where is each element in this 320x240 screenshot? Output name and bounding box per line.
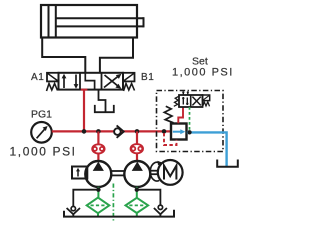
wire red pilot dashed (164, 133, 177, 145)
wire green left pump outlet (97, 187, 99, 198)
solenoid vent valve spring left (174, 96, 179, 106)
shaft pump to motor (150, 171, 158, 175)
node right pump junction (135, 129, 140, 134)
wire cylinder rod port to valve B port (100, 38, 133, 73)
pump P1 (85, 161, 111, 187)
solenoid vent valve ports (182, 91, 189, 95)
wire green left filter to tank (97, 213, 99, 216)
wire red right pump riser upper (136, 131, 138, 144)
solenoid vent valve right position crossed (192, 97, 200, 106)
spring left (47, 84, 58, 92)
node relief inlet junction (162, 129, 167, 134)
wire valve T port drain (99, 90, 106, 112)
directional valve V1 body (59, 73, 124, 90)
svg-text:1,000 PSI: 1,000 PSI (172, 67, 234, 79)
wire green right filter to tank (136, 213, 138, 217)
label B1 (141, 72, 154, 83)
filter F2 (126, 198, 149, 213)
solenoid A1 (47, 73, 59, 82)
node P junction (82, 129, 87, 134)
svg-text:1,000 PSI: 1,000 PSI (10, 145, 77, 159)
rotation arrow (150, 161, 163, 181)
wire red valve P port down (81, 89, 88, 131)
coupling left red (92, 144, 104, 153)
solenoid vent valve left position (182, 97, 188, 105)
wire blue outlet line (187, 132, 227, 166)
cylinder piston (49, 5, 56, 38)
filter F1 (87, 198, 110, 214)
green boundary dash-dot line (112, 184, 114, 222)
check valve CV1 on main line (114, 125, 124, 137)
check valve right drain (154, 205, 167, 217)
node left pump junction (96, 129, 101, 134)
coupling right red (131, 144, 143, 153)
gauge PG1 (31, 122, 52, 143)
wire red left pump riser upper (97, 131, 99, 144)
label Set (192, 56, 208, 68)
spring right (124, 84, 135, 92)
wire right case drain (137, 190, 161, 205)
wire green right pump outlet (136, 187, 138, 198)
motor M1 (158, 160, 183, 185)
wire red main pressure line (52, 130, 171, 132)
compensator box pump P1 (72, 167, 87, 179)
label 1,000 PSI left (10, 145, 77, 159)
node right drain junction (135, 188, 139, 192)
solenoid vent valve SV1 body (179, 95, 203, 107)
wire cylinder cap port to valve A port (42, 38, 85, 73)
label PG1 (31, 108, 52, 120)
relief valve spring (164, 106, 173, 123)
relief valve flow arrow (173, 129, 186, 134)
wire left case drain (73, 190, 98, 207)
relief valve RV1 body (171, 124, 187, 140)
shaft between pumps (111, 171, 124, 175)
svg-text:PG1: PG1 (31, 108, 52, 120)
node left drain junction (96, 188, 100, 192)
label 1,000 PSI right (172, 67, 234, 79)
enclosure dash-dot box (157, 91, 224, 152)
tank symbol blue line (217, 160, 238, 167)
solenoid vent valve solenoid (203, 95, 210, 101)
wire red solenoid valve to relief valve (178, 107, 183, 123)
check valve left drain (67, 206, 80, 216)
node blue junction (187, 130, 191, 134)
pump P2 (124, 161, 150, 187)
tank symbol under valve (95, 105, 114, 112)
directional valve center position tandem path (85, 73, 94, 90)
wire red left pump riser lower (97, 154, 99, 163)
solenoid B1 (123, 73, 135, 82)
wire red right pump riser lower (136, 153, 138, 162)
svg-text:B1: B1 (141, 72, 154, 83)
cylinder rod (57, 17, 144, 27)
svg-text:A1: A1 (31, 72, 44, 83)
directional valve right position crossed arrows (104, 74, 122, 89)
label A1 (31, 72, 44, 83)
tank line (64, 210, 174, 217)
wire green dashed drain (189, 107, 191, 132)
cylinder CYL1 body (41, 5, 137, 38)
solenoid vent valve spring right (203, 102, 210, 107)
directional valve left position arrows (62, 74, 79, 89)
